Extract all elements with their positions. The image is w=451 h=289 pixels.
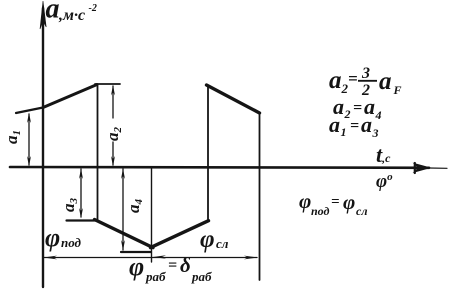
svg-text:4: 4 bbox=[375, 108, 382, 122]
svg-text:φ: φ bbox=[343, 190, 355, 214]
svg-text:раб: раб bbox=[145, 269, 166, 284]
svg-text:δ: δ bbox=[180, 253, 191, 277]
svg-text:F: F bbox=[393, 83, 402, 97]
svg-text:a: a bbox=[329, 112, 340, 137]
svg-text:=: = bbox=[348, 69, 358, 88]
svg-text:φ: φ bbox=[45, 223, 60, 252]
svg-text:a: a bbox=[361, 112, 372, 137]
svg-text:3: 3 bbox=[372, 126, 379, 140]
svg-text:=: = bbox=[350, 118, 359, 135]
svg-text:=: = bbox=[168, 257, 177, 274]
svg-text:3: 3 bbox=[361, 65, 370, 82]
svg-text:1: 1 bbox=[341, 125, 347, 139]
svg-text:сл: сл bbox=[356, 204, 367, 218]
svg-text:φ: φ bbox=[129, 252, 144, 281]
svg-text:под: под bbox=[61, 235, 82, 250]
svg-text:φ: φ bbox=[200, 226, 215, 253]
svg-text:a: a bbox=[329, 67, 342, 94]
svg-text:=: = bbox=[331, 194, 340, 210]
svg-text:,м·с: ,м·с bbox=[58, 7, 85, 24]
svg-text:a: a bbox=[46, 0, 60, 25]
svg-text:a: a bbox=[379, 68, 392, 95]
svg-text:φ: φ bbox=[299, 189, 311, 213]
svg-text:-2: -2 bbox=[89, 3, 97, 14]
svg-text:сл: сл bbox=[216, 236, 229, 251]
svg-text:раб: раб bbox=[191, 269, 212, 284]
svg-text:под: под bbox=[311, 204, 330, 218]
